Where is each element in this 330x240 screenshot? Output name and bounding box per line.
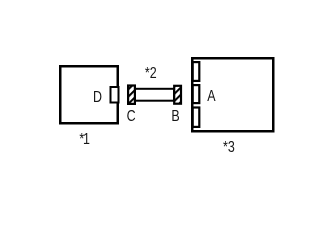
svg-text:C: C	[127, 108, 136, 126]
svg-text:A: A	[207, 88, 216, 106]
svg-text:D: D	[93, 88, 102, 106]
svg-text:*2: *2	[145, 65, 157, 83]
svg-text:*3: *3	[223, 139, 235, 157]
svg-text:*1: *1	[79, 131, 90, 149]
svg-text:B: B	[171, 108, 179, 126]
